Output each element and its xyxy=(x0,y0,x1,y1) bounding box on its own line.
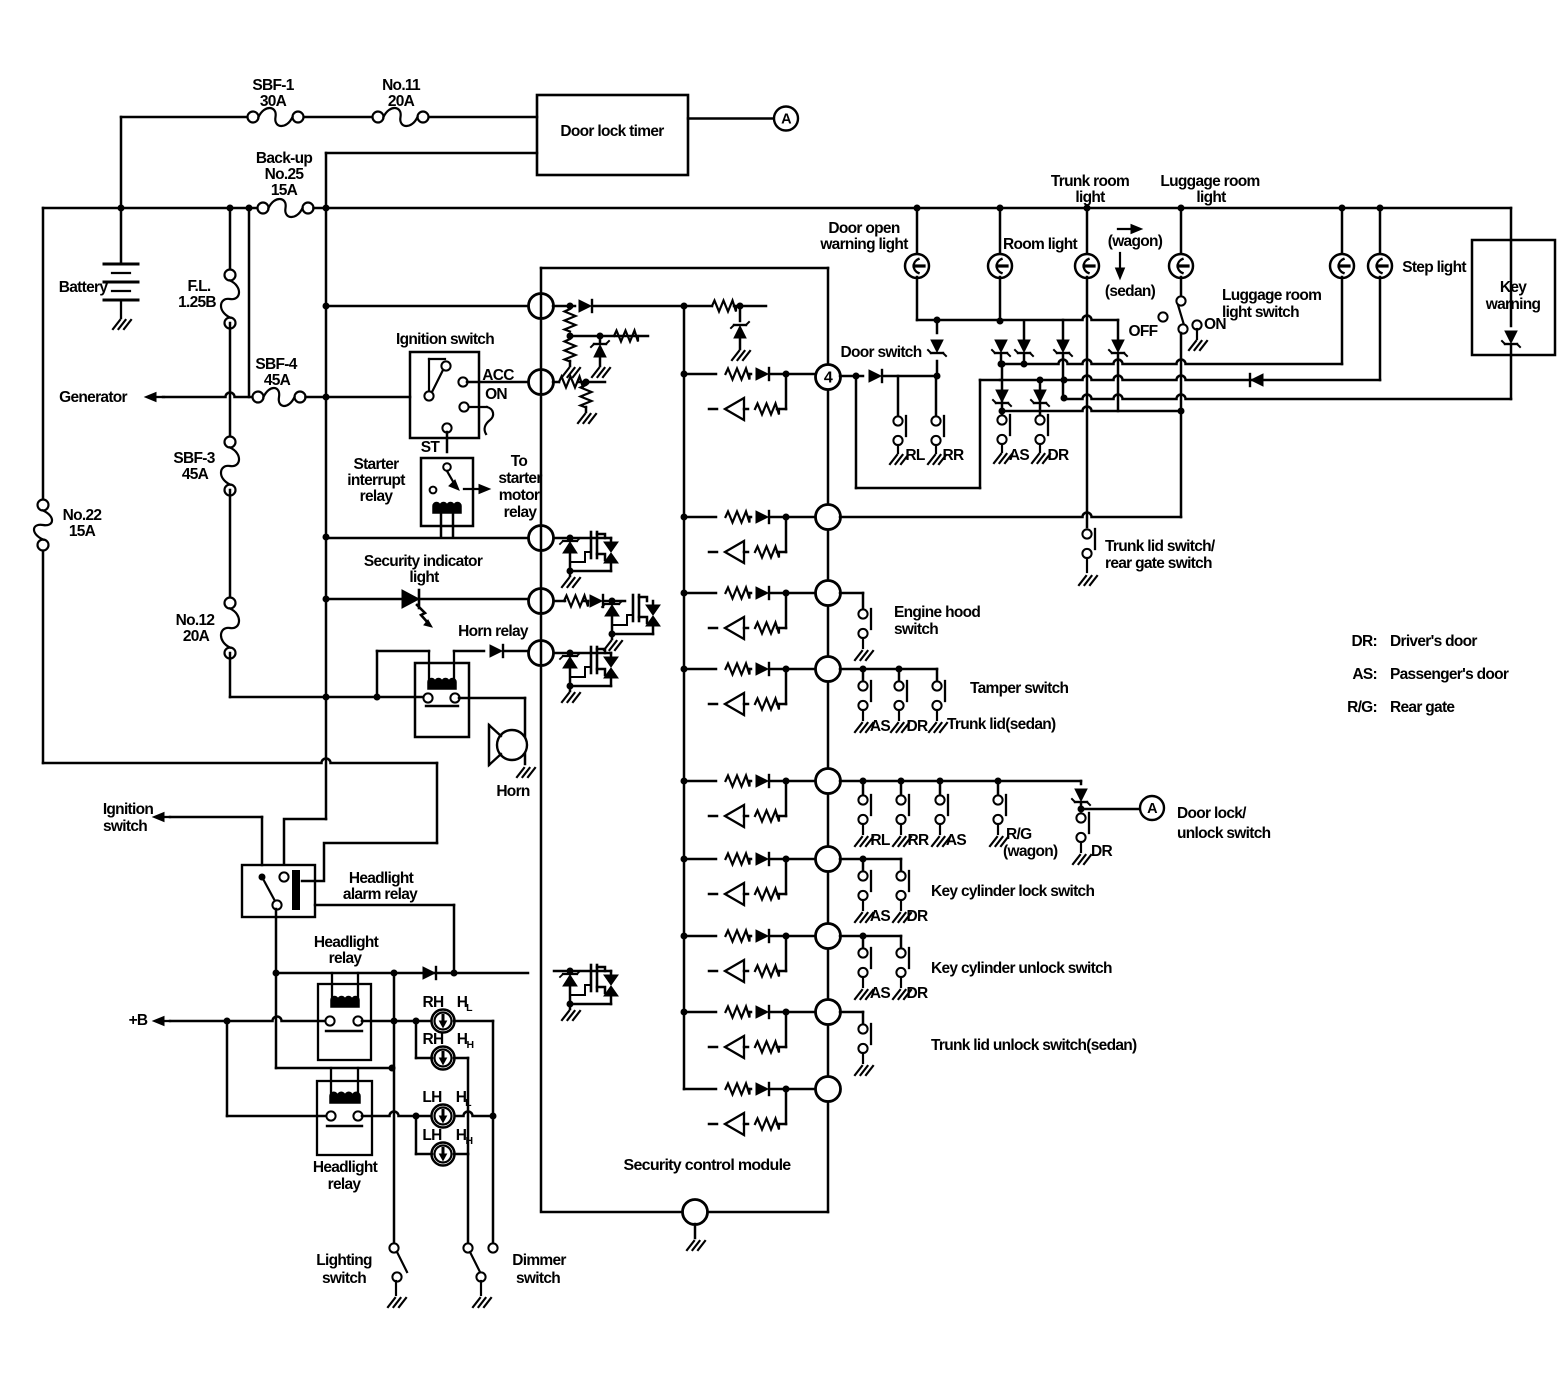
svg-text:Back-up: Back-up xyxy=(256,150,312,167)
svg-text:Horn: Horn xyxy=(496,783,530,800)
svg-text:Ignition switch: Ignition switch xyxy=(396,331,494,348)
svg-text:AS: AS xyxy=(870,908,890,925)
svg-text:A: A xyxy=(781,112,792,128)
svg-text:Door lock timer: Door lock timer xyxy=(560,123,664,140)
svg-text:Step light: Step light xyxy=(1402,259,1466,276)
svg-text:ST: ST xyxy=(421,439,441,456)
svg-text:L: L xyxy=(465,1097,472,1109)
svg-text:To: To xyxy=(511,453,528,470)
svg-text:Generator: Generator xyxy=(59,389,127,406)
svg-text:A: A xyxy=(1147,801,1158,817)
svg-text:RR: RR xyxy=(908,832,929,849)
svg-text:Trunk lid(sedan): Trunk lid(sedan) xyxy=(947,716,1056,733)
svg-text:Security indicator: Security indicator xyxy=(364,553,483,570)
svg-text:15A: 15A xyxy=(69,523,96,540)
svg-text:Trunk lid switch/: Trunk lid switch/ xyxy=(1105,538,1216,555)
svg-text:SBF-4: SBF-4 xyxy=(255,356,297,373)
svg-text:light: light xyxy=(409,569,439,586)
svg-text:LH: LH xyxy=(422,1127,442,1144)
svg-text:H: H xyxy=(466,1135,473,1147)
svg-text:alarm relay: alarm relay xyxy=(343,886,418,903)
svg-text:Driver's door: Driver's door xyxy=(1390,633,1477,650)
svg-text:DR: DR xyxy=(907,908,928,925)
svg-text:Trunk room: Trunk room xyxy=(1051,173,1129,190)
svg-text:30A: 30A xyxy=(260,93,287,110)
svg-text:Headlight: Headlight xyxy=(349,870,414,887)
svg-text:SBF-1: SBF-1 xyxy=(252,77,294,94)
svg-text:Room light: Room light xyxy=(1003,236,1077,253)
svg-text:F.L.: F.L. xyxy=(187,278,210,295)
svg-text:OFF: OFF xyxy=(1129,323,1158,340)
svg-text:Security control module: Security control module xyxy=(623,1157,791,1174)
svg-text:Headlight: Headlight xyxy=(314,934,379,951)
svg-text:H: H xyxy=(467,1039,474,1051)
svg-text:switch: switch xyxy=(103,818,147,835)
svg-text:DR: DR xyxy=(907,718,928,735)
svg-text:Trunk lid unlock switch(sedan): Trunk lid unlock switch(sedan) xyxy=(931,1037,1137,1054)
svg-text:Battery: Battery xyxy=(59,279,109,296)
svg-text:Key cylinder lock switch: Key cylinder lock switch xyxy=(931,883,1094,900)
svg-text:Key: Key xyxy=(1500,279,1527,296)
svg-text:Horn relay: Horn relay xyxy=(458,623,529,640)
svg-text:L: L xyxy=(466,1002,473,1014)
svg-text:Passenger's door: Passenger's door xyxy=(1390,666,1509,683)
svg-text:unlock switch: unlock switch xyxy=(1177,825,1271,842)
svg-text:SBF-3: SBF-3 xyxy=(173,450,215,467)
svg-text:rear gate switch: rear gate switch xyxy=(1105,555,1212,572)
svg-text:warning light: warning light xyxy=(819,236,908,253)
svg-text:AS: AS xyxy=(870,718,890,735)
svg-text:relay: relay xyxy=(329,950,363,967)
svg-text:No.11: No.11 xyxy=(382,77,421,94)
svg-text:AS:: AS: xyxy=(1352,666,1377,683)
svg-text:1.25B: 1.25B xyxy=(178,294,216,311)
svg-text:AS: AS xyxy=(1009,447,1029,464)
svg-text:switch: switch xyxy=(516,1270,560,1287)
svg-text:light switch: light switch xyxy=(1222,304,1299,321)
svg-text:ON: ON xyxy=(485,386,507,403)
svg-text:(wagon): (wagon) xyxy=(1003,843,1058,860)
svg-text:switch: switch xyxy=(322,1270,366,1287)
svg-text:+B: +B xyxy=(129,1012,148,1029)
svg-text:motor: motor xyxy=(499,487,540,504)
svg-text:RL: RL xyxy=(870,832,889,849)
svg-text:relay: relay xyxy=(360,488,394,505)
svg-text:light: light xyxy=(1075,189,1105,206)
svg-text:(sedan): (sedan) xyxy=(1105,283,1156,300)
svg-text:Door lock/: Door lock/ xyxy=(1177,805,1247,822)
svg-text:R/G:: R/G: xyxy=(1347,699,1377,716)
svg-text:15A: 15A xyxy=(271,182,298,199)
svg-text:RL: RL xyxy=(905,447,924,464)
svg-text:4: 4 xyxy=(824,370,833,387)
svg-text:AS: AS xyxy=(946,832,966,849)
svg-text:45A: 45A xyxy=(264,372,291,389)
svg-text:starter: starter xyxy=(498,470,542,487)
svg-text:No.25: No.25 xyxy=(265,166,305,183)
svg-text:DR: DR xyxy=(907,985,928,1002)
svg-text:light: light xyxy=(1196,189,1226,206)
svg-text:Luggage room: Luggage room xyxy=(1160,173,1259,190)
svg-text:(wagon): (wagon) xyxy=(1108,233,1163,250)
svg-text:20A: 20A xyxy=(388,93,415,110)
svg-text:Rear gate: Rear gate xyxy=(1390,699,1455,716)
svg-text:switch: switch xyxy=(894,621,938,638)
svg-text:Ignition: Ignition xyxy=(103,801,154,818)
svg-text:Tamper switch: Tamper switch xyxy=(970,680,1069,697)
svg-text:warning: warning xyxy=(1485,296,1541,313)
svg-text:Starter: Starter xyxy=(353,456,399,473)
svg-text:Key cylinder unlock switch: Key cylinder unlock switch xyxy=(931,960,1112,977)
svg-text:interrupt: interrupt xyxy=(347,472,405,489)
svg-text:No.12: No.12 xyxy=(176,612,215,629)
svg-text:R/G: R/G xyxy=(1006,826,1032,843)
svg-text:Lighting: Lighting xyxy=(316,1252,372,1269)
svg-text:DR: DR xyxy=(1048,447,1069,464)
svg-text:DR: DR xyxy=(1091,843,1112,860)
svg-text:Dimmer: Dimmer xyxy=(512,1252,566,1269)
svg-text:20A: 20A xyxy=(183,628,210,645)
svg-text:Door switch: Door switch xyxy=(840,344,921,361)
svg-text:Luggage room: Luggage room xyxy=(1222,287,1321,304)
svg-text:AS: AS xyxy=(870,985,890,1002)
svg-text:relay: relay xyxy=(504,504,538,521)
svg-text:Door open: Door open xyxy=(828,220,899,237)
svg-text:relay: relay xyxy=(328,1176,362,1193)
svg-text:45A: 45A xyxy=(182,466,209,483)
svg-text:RR: RR xyxy=(943,447,964,464)
svg-text:DR:: DR: xyxy=(1352,633,1377,650)
svg-text:LH: LH xyxy=(422,1089,442,1106)
svg-text:Engine hood: Engine hood xyxy=(894,604,980,621)
svg-text:No.22: No.22 xyxy=(63,507,102,524)
svg-text:Headlight: Headlight xyxy=(313,1159,378,1176)
